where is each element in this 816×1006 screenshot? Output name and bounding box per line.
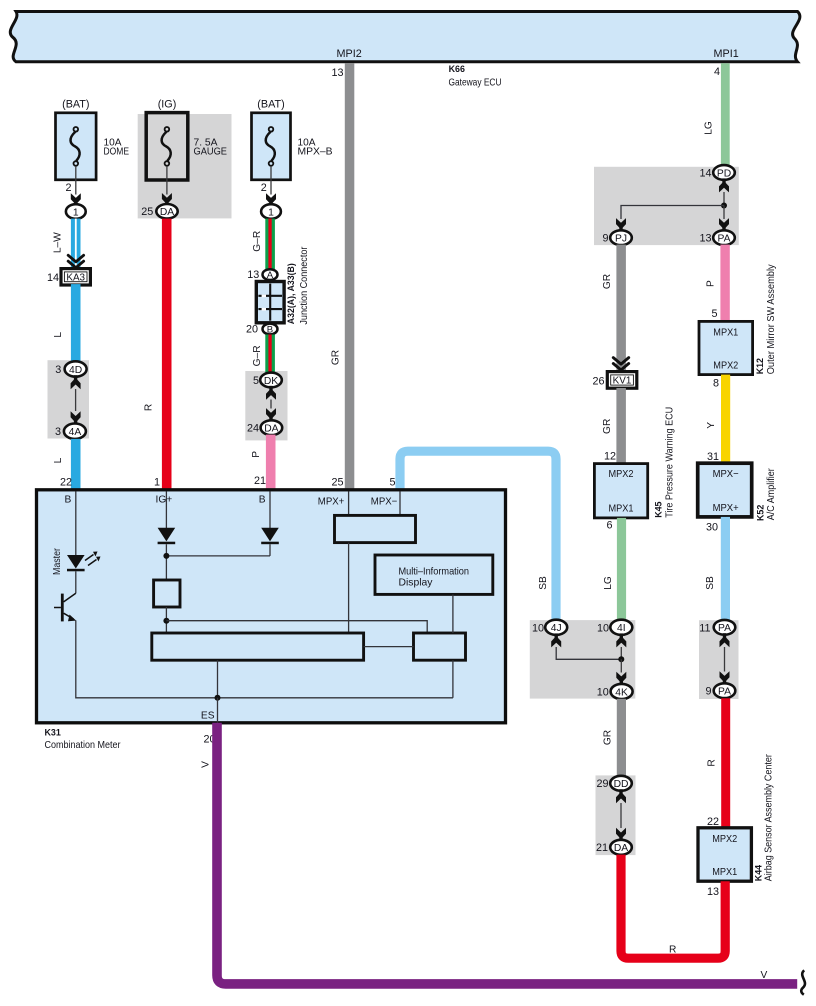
svg-text:KA3: KA3 xyxy=(66,273,85,284)
K45 Tire Pressure Warning ECU box xyxy=(594,464,647,518)
K44 Airbag Sensor Assembly Center box xyxy=(698,828,751,881)
svg-text:LG: LG xyxy=(704,121,715,135)
gray shaded box behind connectors 4D/4A xyxy=(48,360,90,438)
arrow pair between DK and DA xyxy=(266,386,276,400)
svg-text:Junction Connector: Junction Connector xyxy=(299,246,310,325)
svg-text:DD: DD xyxy=(614,779,629,790)
wire LG from bus MPI1 pin 4 to connector PD xyxy=(721,63,730,167)
svg-text:25: 25 xyxy=(331,476,343,488)
wire L-W from connector 1 to KA3 xyxy=(71,219,81,270)
svg-text:26: 26 xyxy=(592,375,604,387)
svg-text:13: 13 xyxy=(707,886,719,898)
svg-text:13: 13 xyxy=(699,233,711,245)
svg-text:DOME: DOME xyxy=(104,146,130,157)
svg-text:GR: GR xyxy=(602,419,613,434)
svg-text:1: 1 xyxy=(268,207,274,218)
svg-text:KV1: KV1 xyxy=(613,376,632,387)
svg-text:G–R: G–R xyxy=(252,345,263,366)
svg-text:DA: DA xyxy=(614,843,628,854)
regulator block (small square) xyxy=(154,580,180,607)
svg-text:MPX+: MPX+ xyxy=(318,496,345,507)
double chevron on L-W wire xyxy=(68,255,83,267)
svg-text:21: 21 xyxy=(596,842,608,854)
fuse F2 output stem and arrow xyxy=(166,166,168,195)
double chevron on GR wire xyxy=(613,358,628,370)
junction connector A32(A), A33(B) xyxy=(256,282,284,323)
svg-text:Y: Y xyxy=(706,422,717,429)
ES node xyxy=(215,695,221,701)
svg-text:4A: 4A xyxy=(69,427,82,438)
wire G-R from junction B to connector DK xyxy=(265,335,275,373)
svg-text:MPX1: MPX1 xyxy=(609,504,634,515)
gray shaded box behind connectors PA/PA xyxy=(699,620,739,699)
svg-text:4D: 4D xyxy=(69,365,82,376)
arrow pair between DD and DA xyxy=(616,789,626,803)
svg-text:4I: 4I xyxy=(617,623,626,634)
svg-text:Airbag Sensor Assembly Center: Airbag Sensor Assembly Center xyxy=(764,754,775,882)
node joining D1 and D2 outputs xyxy=(165,544,167,580)
line MID to driver xyxy=(452,594,454,633)
svg-text:5: 5 xyxy=(711,308,717,320)
wire P from DA to K31 pin 21 xyxy=(266,435,276,491)
svg-text:10: 10 xyxy=(597,622,609,634)
svg-text:10: 10 xyxy=(597,686,609,698)
svg-text:31: 31 xyxy=(707,451,719,463)
arrows and link lines in 4J/4I/4K box xyxy=(551,633,561,647)
gray shaded box behind connectors DD/DA xyxy=(596,775,636,855)
svg-text:MPX−: MPX− xyxy=(371,496,398,507)
connector DA (gauge) xyxy=(156,204,177,219)
svg-text:PA: PA xyxy=(718,687,731,698)
svg-text:MPX1: MPX1 xyxy=(712,867,737,878)
line driver down to bottom rail xyxy=(452,660,454,698)
svg-text:K66: K66 xyxy=(449,64,465,74)
svg-text:K52: K52 xyxy=(755,505,765,521)
svg-text:A32(A), A33(B): A32(A), A33(B) xyxy=(286,263,296,324)
K31 Combination Meter box xyxy=(37,490,506,723)
gray shaded box behind connectors DK/DA xyxy=(245,371,287,440)
svg-text:MPI1: MPI1 xyxy=(714,48,739,60)
svg-text:MPX–B: MPX–B xyxy=(298,146,333,157)
svg-text:V: V xyxy=(200,761,211,768)
svg-text:A/C Amplifier: A/C Amplifier xyxy=(766,468,777,521)
svg-text:Outer Mirror SW Assembly: Outer Mirror SW Assembly xyxy=(766,263,777,374)
svg-text:DK: DK xyxy=(264,376,278,387)
wire P from PA(13) to K12 pin 5 xyxy=(720,245,729,322)
svg-text:9: 9 xyxy=(602,233,608,245)
svg-text:10: 10 xyxy=(532,622,544,634)
svg-text:LG: LG xyxy=(603,576,614,590)
svg-text:R: R xyxy=(707,759,718,766)
transistor Q1 xyxy=(75,571,77,593)
svg-text:PD: PD xyxy=(717,168,731,179)
svg-text:B: B xyxy=(267,325,273,336)
svg-text:ES: ES xyxy=(201,711,215,722)
svg-text:Tire Pressure Warning ECU: Tire Pressure Warning ECU xyxy=(665,407,676,518)
svg-text:29: 29 xyxy=(596,778,608,790)
gray shaded box behind connectors 4J/4I/4K xyxy=(530,620,636,699)
svg-text:GR: GR xyxy=(331,350,342,365)
arrow pair between PA(11) and PA(9) xyxy=(720,633,730,647)
svg-text:L: L xyxy=(53,457,64,463)
gray shaded box behind connectors PD/PJ/PA xyxy=(594,167,739,245)
wire L from KA3 to connector 4D xyxy=(71,284,81,362)
svg-text:V: V xyxy=(761,970,768,981)
torn end of V wire xyxy=(801,970,805,994)
svg-text:MPX1: MPX1 xyxy=(713,327,738,338)
internal line from pin 22 to LED xyxy=(75,492,77,556)
svg-text:2: 2 xyxy=(261,182,267,194)
svg-text:Multi–Information: Multi–Information xyxy=(399,567,470,578)
svg-text:K45: K45 xyxy=(654,501,664,517)
svg-text:(BAT): (BAT) xyxy=(62,99,89,111)
svg-text:30: 30 xyxy=(706,522,718,534)
svg-text:20: 20 xyxy=(246,324,258,336)
line CPU down to bottom rail xyxy=(217,660,219,698)
svg-text:MPX−: MPX− xyxy=(713,469,739,480)
svg-text:21: 21 xyxy=(254,475,266,487)
connector 1 (DOME) xyxy=(66,204,86,219)
wire L from 4A to K31 pin 22 xyxy=(71,439,81,491)
svg-text:Combination Meter: Combination Meter xyxy=(45,740,122,751)
svg-text:A: A xyxy=(267,270,274,281)
svg-text:Gateway ECU: Gateway ECU xyxy=(449,77,502,88)
svg-text:6: 6 xyxy=(606,520,612,532)
svg-text:3: 3 xyxy=(55,364,61,376)
svg-text:5: 5 xyxy=(253,375,259,387)
gray shaded box behind IG fuse xyxy=(138,114,232,218)
svg-text:9: 9 xyxy=(705,686,711,698)
wire G-R from connector 1 to junction A xyxy=(265,219,275,271)
svg-text:Display: Display xyxy=(399,577,434,588)
emitter line down and across bottom xyxy=(76,620,453,697)
line from square to node xyxy=(165,607,167,633)
svg-text:PA: PA xyxy=(718,234,731,245)
svg-text:5: 5 xyxy=(389,476,395,488)
MPX transceiver block xyxy=(348,492,350,516)
Multi-Information Display box xyxy=(375,555,493,594)
svg-text:22: 22 xyxy=(60,476,72,488)
svg-text:K44: K44 xyxy=(753,865,763,881)
svg-text:(BAT): (BAT) xyxy=(257,99,284,111)
svg-text:14: 14 xyxy=(47,272,59,284)
driver block (small rectangle) xyxy=(414,633,466,660)
svg-text:GAUGE: GAUGE xyxy=(194,146,228,157)
svg-text:2: 2 xyxy=(65,182,71,194)
svg-text:R: R xyxy=(669,944,676,955)
svg-text:PA: PA xyxy=(718,623,731,634)
svg-text:R: R xyxy=(144,404,155,411)
svg-text:GR: GR xyxy=(603,730,614,745)
svg-text:MPX+: MPX+ xyxy=(713,503,739,514)
svg-text:L–W: L–W xyxy=(53,232,64,253)
connector 1 (MPX-B) xyxy=(261,204,281,219)
K52 A/C Amplifier box xyxy=(698,463,752,517)
svg-text:1: 1 xyxy=(73,207,79,218)
svg-text:P: P xyxy=(706,280,717,287)
svg-text:MPX2: MPX2 xyxy=(713,360,738,371)
CPU block (long rectangle) xyxy=(152,633,364,660)
svg-text:B: B xyxy=(65,494,72,505)
svg-text:14: 14 xyxy=(699,167,711,179)
svg-text:MPX2: MPX2 xyxy=(712,834,737,845)
arrow into PD and branch lines xyxy=(719,178,729,192)
svg-text:DA: DA xyxy=(160,207,174,218)
wire GR from 4K to connector DD xyxy=(617,699,626,776)
svg-text:13: 13 xyxy=(247,269,259,281)
svg-text:11: 11 xyxy=(699,622,710,634)
line from transceiver to CPU block xyxy=(348,543,350,633)
svg-text:GR: GR xyxy=(602,274,613,289)
svg-text:SB: SB xyxy=(705,576,716,590)
link CPU to driver xyxy=(364,646,414,648)
svg-text:DA: DA xyxy=(264,424,278,435)
svg-text:4: 4 xyxy=(714,66,720,78)
fuse F1 output stem and arrow xyxy=(75,166,77,195)
arrow pair between 4D and 4A xyxy=(71,375,81,389)
diode D2 xyxy=(261,528,279,542)
svg-text:4K: 4K xyxy=(615,687,628,698)
svg-text:P: P xyxy=(251,451,262,458)
wire R from PA(9) to K44 pin 22 xyxy=(721,698,730,828)
LED indicator xyxy=(67,555,85,569)
diode D1 xyxy=(158,528,176,542)
svg-text:SB: SB xyxy=(538,576,549,590)
wire SB from K31 MPX- pin 5 up and over to connector 4J xyxy=(400,451,556,621)
svg-text:25: 25 xyxy=(141,206,153,218)
svg-text:1: 1 xyxy=(154,476,160,488)
svg-text:13: 13 xyxy=(331,67,343,79)
svg-text:G–R: G–R xyxy=(252,231,263,252)
svg-text:B: B xyxy=(259,494,266,505)
svg-text:8: 8 xyxy=(713,378,719,390)
CAN bus bar (torn ends) xyxy=(10,12,800,62)
svg-text:4J: 4J xyxy=(551,623,562,634)
svg-text:MPX2: MPX2 xyxy=(609,469,634,480)
internal line from pin 1 to diode D1 xyxy=(165,492,167,529)
svg-text:12: 12 xyxy=(604,450,616,462)
wire V from K31 pin 20 ES to right edge xyxy=(217,723,797,984)
wire R from connector DA to K31 pin 1 xyxy=(162,219,172,491)
svg-text:3: 3 xyxy=(55,426,61,438)
svg-text:IG+: IG+ xyxy=(156,494,173,505)
branch line from node to right block xyxy=(166,621,427,633)
svg-text:K12: K12 xyxy=(755,358,765,374)
svg-text:PJ: PJ xyxy=(615,234,627,245)
wire GR from KV1 to K45 pin 12 xyxy=(616,388,626,464)
wire R from DA(21) to K44 pin 13 xyxy=(621,855,725,959)
svg-text:L: L xyxy=(53,332,64,338)
K12 Outer Mirror SW Assembly box xyxy=(699,321,753,374)
svg-text:K31: K31 xyxy=(45,728,61,738)
svg-text:Master: Master xyxy=(52,547,63,575)
wire GR from bus MPI2 pin 13 to K31 MPX+ xyxy=(345,63,355,490)
svg-text:24: 24 xyxy=(247,423,259,435)
fuse F3 output stem and arrow xyxy=(270,166,272,195)
svg-text:MPI2: MPI2 xyxy=(337,48,362,60)
internal line from pin 21 to diode D2 xyxy=(269,492,271,529)
wire GR from PJ to KV1 xyxy=(616,245,626,373)
svg-text:(IG): (IG) xyxy=(158,99,177,111)
